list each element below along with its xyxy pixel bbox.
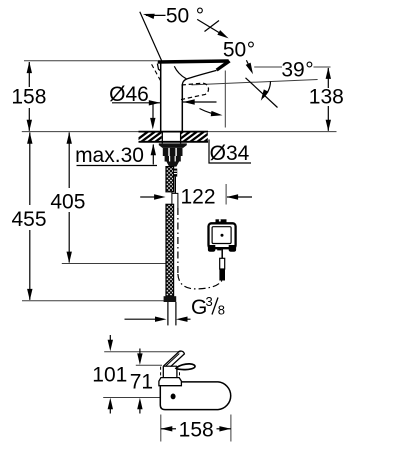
svg-text:158: 158 <box>11 86 46 109</box>
svg-text:°: ° <box>196 5 204 28</box>
svg-text:71: 71 <box>130 371 153 394</box>
svg-text:138: 138 <box>309 85 344 108</box>
svg-text:122: 122 <box>180 185 215 208</box>
svg-text:405: 405 <box>50 191 85 214</box>
svg-text:39: 39 <box>281 59 304 82</box>
svg-text:°: ° <box>247 39 255 62</box>
svg-text:3: 3 <box>206 294 213 309</box>
svg-text:455: 455 <box>11 208 46 231</box>
svg-text:8: 8 <box>218 303 225 318</box>
svg-text:50: 50 <box>223 39 246 62</box>
svg-text:101: 101 <box>92 364 127 387</box>
svg-text:°: ° <box>305 59 313 82</box>
svg-text:Ø34: Ø34 <box>210 142 250 165</box>
svg-text:158: 158 <box>179 419 214 442</box>
svg-text:max.30: max.30 <box>75 144 144 167</box>
svg-text:50: 50 <box>166 5 189 28</box>
